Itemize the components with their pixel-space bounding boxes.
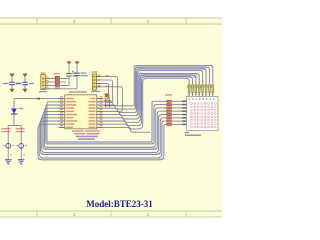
connector J2 to crystal wires — [97, 77, 118, 106]
IC U2 right pin stubs — [97, 98, 104, 100]
wire: R4 to matrix top pin — [198, 93, 200, 97]
resistor R3 — [195, 85, 197, 93]
wire: IC right pin 19 to matrix column 1 — [103, 78, 189, 129]
crystal pin numbers — [105, 75, 109, 76]
matrix value label — [185, 132, 189, 134]
wire: R3 to matrix top pin — [195, 93, 197, 97]
net arrow on RST wire — [36, 97, 40, 100]
wire: RP1 to matrix left pin 3 — [172, 107, 187, 109]
resistor R5 — [202, 85, 204, 93]
wire: IC right pin 16 to matrix column 4 — [103, 73, 199, 119]
resistor R8 label — [211, 85, 212, 88]
VCC arrow IC top right — [104, 94, 109, 98]
RST vertical wire — [13, 99, 15, 126]
IC U2 bottom value labels — [72, 130, 84, 132]
wire: IC left pin 8 to matrix row 7 — [39, 121, 166, 158]
IC U2 left pin numbers — [60, 96, 63, 97]
wire: IC right pin 17 to matrix column 3 — [103, 75, 196, 122]
resistor pack label — [165, 94, 172, 96]
IC U2 left pin names — [66, 98, 74, 99]
resistor pack RP1 element 7 — [167, 120, 172, 122]
matrix top pin number 8 — [212, 94, 214, 95]
resistor R8 — [212, 85, 214, 93]
resistor R3 label — [194, 85, 195, 88]
resistor R5 label — [200, 85, 201, 88]
wire: RP1 to matrix left pin 5 — [172, 114, 187, 116]
wire: RP1 to matrix left pin 4 — [172, 110, 187, 112]
matrix top pin number row — [189, 98, 190, 100]
wire: RP1 to matrix left pin 8 — [172, 123, 187, 125]
wire: IC left pin 6 to matrix row 5 — [42, 115, 167, 153]
top band fill — [136, 66, 206, 71]
matrix top pin number 3 — [195, 94, 197, 95]
wire: IC left pin 3 to matrix row 2 — [46, 105, 167, 144]
resistor R4 — [198, 85, 200, 93]
wire: IC left pin 7 to matrix row 6 — [41, 118, 167, 155]
svg-text:3: 3 — [73, 212, 76, 217]
C4 labels — [81, 72, 87, 73]
IC U2 body — [65, 95, 97, 129]
IC U2 right pin numbers — [100, 96, 103, 97]
RST wire to IC pin1 — [14, 98, 59, 100]
crystal Y1 body — [105, 95, 109, 99]
svg-text:Model:BTE23-31: Model:BTE23-31 — [86, 199, 153, 209]
matrix left pin labels — [182, 101, 186, 103]
pin10 tail wire — [103, 127, 150, 132]
resistor pack RP1 element 1 — [167, 100, 172, 102]
riser pair fills — [152, 106, 153, 141]
resistor R1 — [188, 85, 190, 93]
capacitor C3 — [68, 65, 70, 74]
branch R4 — [7, 126, 9, 160]
wire: R6 to matrix top pin — [205, 93, 207, 97]
matrix LED dots — [190, 103, 216, 128]
wire: IC left pin 4 to matrix row 3 — [44, 108, 166, 147]
resistor R2 label — [190, 85, 191, 88]
connector J2 pin stubs — [97, 76, 101, 78]
connector J1 labels — [41, 72, 46, 73]
resistor pack RP1 element 6 — [167, 117, 172, 119]
resistor R2 — [192, 85, 194, 93]
matrix top pin number 5 — [202, 94, 204, 95]
LED matrix DS1 body — [187, 97, 219, 131]
resistor R1 label — [187, 85, 188, 88]
ground branch B — [18, 159, 24, 161]
wire: IC left pin 9 to matrix row 8 — [38, 124, 167, 160]
resistor R7 label — [207, 85, 208, 88]
border frame top lines — [0, 17, 222, 19]
connector J1 body — [41, 75, 46, 90]
VCC arrow above C4 — [75, 61, 80, 64]
wire: RP1 to matrix left pin 6 — [172, 117, 187, 119]
resistor R4 label — [197, 85, 198, 88]
bottom band fill — [46, 142, 154, 144]
matrix top pin number 7 — [208, 94, 210, 95]
wire: IC right pin 14 to matrix column 6 — [103, 69, 206, 113]
wire: RP1 to matrix left pin 1 — [172, 100, 187, 102]
ground branch A — [5, 159, 11, 161]
wire: IC left pin 5 to matrix row 4 — [43, 111, 166, 149]
C3 labels — [72, 73, 77, 74]
branch C8 — [20, 126, 22, 160]
resistor pack RP1 element 8 — [167, 123, 172, 125]
RST split wire — [8, 125, 21, 127]
resistor pack RP1 element 4 — [167, 110, 172, 112]
resistor R6 label — [204, 85, 205, 88]
matrix top pin number 1 — [188, 94, 190, 95]
wire: IC right pin 13 to matrix column 7 — [103, 67, 209, 109]
border column ticks — [36, 18, 38, 24]
svg-text:3: 3 — [147, 212, 150, 217]
resistor R7 — [209, 85, 211, 93]
wire: IC right pin 12 to matrix column 8 — [103, 66, 213, 106]
matrix top pin number 6 — [205, 94, 207, 95]
sheet background — [0, 18, 222, 218]
wire: R8 to matrix top pin — [212, 93, 214, 97]
resistor pack RP1 element 5 — [167, 113, 172, 115]
capacitor C4 — [76, 65, 78, 73]
svg-text:3: 3 — [147, 19, 150, 24]
IC U2 left pin stubs — [59, 98, 65, 100]
wire: IC left pin 2 to matrix row 1 — [47, 101, 167, 142]
resistor R2 — [55, 76, 59, 86]
connector J2 labels — [92, 71, 98, 72]
crystal circuit next to IC right pins — [105, 99, 107, 108]
wire: R1 to matrix top pin — [188, 93, 190, 97]
IC U2 right pin names — [91, 98, 96, 99]
decoupling caps C1 C2 — [9, 74, 14, 78]
wire: RP1 to matrix left pin 2 — [172, 104, 187, 106]
border frame bottom lines — [0, 210, 222, 212]
J1 wires — [45, 78, 69, 80]
IC U2 designator label — [69, 91, 87, 93]
wire: R2 to matrix top pin — [192, 93, 194, 97]
resistor pack RP1 element 3 — [167, 107, 172, 109]
resistor pack RP1 element 2 — [167, 104, 172, 106]
resistor R6 — [205, 85, 207, 93]
matrix top pin number 4 — [198, 94, 200, 95]
connector J1 pins — [45, 78, 49, 80]
wire: R7 to matrix top pin — [208, 93, 210, 97]
vertical band fill — [134, 72, 143, 110]
wire: IC right pin 15 to matrix column 5 — [103, 70, 202, 115]
VCC arrow above C3 — [67, 61, 72, 64]
diode D1 — [11, 109, 17, 114]
connector J2 body — [93, 74, 97, 90]
wire: R5 to matrix top pin — [202, 93, 204, 97]
wire: RP1 to matrix left pin 7 — [172, 120, 187, 122]
svg-text:3: 3 — [73, 19, 76, 24]
wire: IC right pin 18 to matrix column 2 — [103, 77, 192, 126]
connector J2 pin numbers — [98, 75, 101, 76]
matrix top pin number 2 — [192, 94, 194, 95]
